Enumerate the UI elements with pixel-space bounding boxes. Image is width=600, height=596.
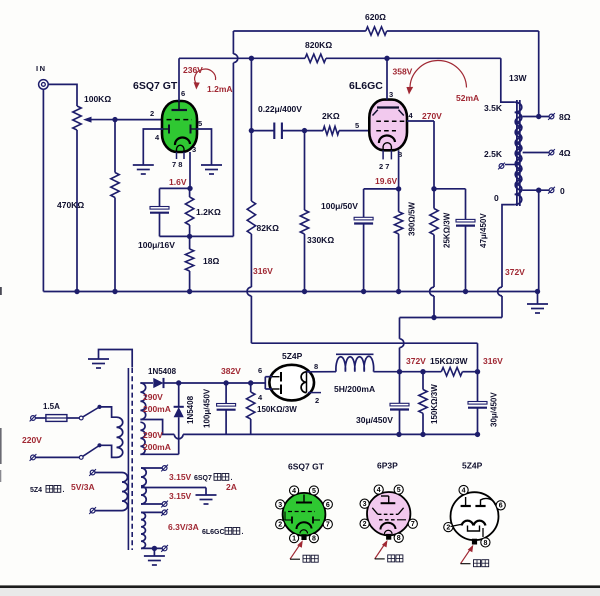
scan artifact bottom line <box>0 585 600 588</box>
screen node <box>431 186 436 191</box>
svg-text:52mA: 52mA <box>456 93 479 103</box>
plate wire row <box>179 57 305 59</box>
PT primary winding <box>117 417 123 457</box>
svg-text:6: 6 <box>181 89 185 98</box>
resistor 470K <box>114 120 116 173</box>
wire pin3 cathode <box>189 152 191 188</box>
svg-text:8: 8 <box>312 536 316 543</box>
wire top 620 line <box>233 30 365 32</box>
svg-text:2.5K: 2.5K <box>484 149 503 159</box>
main ground rail <box>43 291 537 293</box>
6L6 plate <box>377 106 399 108</box>
6SQ7 diode plates <box>168 125 170 134</box>
svg-text:6: 6 <box>258 366 262 375</box>
svg-text:8: 8 <box>483 540 487 547</box>
mains terminal N <box>31 455 36 460</box>
svg-text:4: 4 <box>292 488 296 495</box>
svg-text:0.22μ/400V: 0.22μ/400V <box>258 104 302 114</box>
5Z4P plates <box>272 376 280 378</box>
svg-text:25KΩ/3W: 25KΩ/3W <box>443 212 452 248</box>
OPT core <box>516 100 518 206</box>
svg-text:6SQ7 GT: 6SQ7 GT <box>133 80 178 92</box>
wire jack to pot top <box>48 84 77 106</box>
svg-text:7 8: 7 8 <box>172 160 182 169</box>
svg-text:382V: 382V <box>221 366 241 376</box>
node 316V <box>462 371 477 373</box>
capacitor 0.22u <box>273 123 275 140</box>
PT core ground <box>99 350 133 368</box>
input jack IN <box>39 80 49 90</box>
choke 5H/200mA <box>336 353 374 355</box>
svg-text:6L6GC: 6L6GC <box>202 529 225 536</box>
PT 6SQ7 winding <box>141 468 146 504</box>
capacitor 100u/50V <box>363 189 365 217</box>
diode 1N5408 shunt <box>178 383 180 407</box>
svg-text:IN: IN <box>36 64 47 73</box>
OPT secondary winding <box>515 117 522 191</box>
svg-text:1.2mA: 1.2mA <box>207 84 233 94</box>
svg-text:47μ/450V: 47μ/450V <box>479 213 488 248</box>
6L6 plate lead pin3 <box>386 58 388 99</box>
OPT sec 0 tap <box>523 189 550 191</box>
svg-text:4: 4 <box>462 487 466 494</box>
PT HV winding lower <box>140 422 145 454</box>
resistor 18ohm <box>189 236 191 249</box>
resistor 820K <box>305 54 326 62</box>
wire 382V line <box>179 382 266 384</box>
svg-text:13W: 13W <box>509 73 527 83</box>
diode 1N5408 series <box>153 378 163 388</box>
svg-text:100μ/450V: 100μ/450V <box>203 388 212 428</box>
svg-text:82KΩ: 82KΩ <box>257 223 280 233</box>
svg-text:3: 3 <box>389 90 393 99</box>
svg-text:390Ω/5W: 390Ω/5W <box>408 202 417 236</box>
socket 6P3P <box>367 492 410 535</box>
wire grid to 6SQ7 pin2 <box>115 119 163 121</box>
svg-text:7: 7 <box>411 521 415 528</box>
socket 6SQ7 GT <box>283 493 326 536</box>
svg-text:7: 7 <box>326 522 330 529</box>
OPT sec 8ohm tap <box>523 116 550 118</box>
resistor 82K <box>250 131 252 201</box>
capacitor 30u/450V b <box>477 372 479 402</box>
6L6 winding gnd <box>153 548 155 556</box>
svg-text:820KΩ: 820KΩ <box>305 40 332 50</box>
svg-text:2: 2 <box>446 525 450 532</box>
svg-text:290V: 290V <box>143 430 163 440</box>
svg-text:2: 2 <box>315 396 319 405</box>
coupling wire <box>251 130 274 132</box>
feedback vert top <box>232 31 234 54</box>
tube 6SQ7 GT body <box>162 101 197 152</box>
choke out wire <box>374 371 442 373</box>
svg-text:6SQ7 GT: 6SQ7 GT <box>288 461 325 471</box>
5Z4P pin2 stub <box>308 392 321 394</box>
6SQ7 winding tap gnd <box>141 487 206 489</box>
svg-text:620Ω: 620Ω <box>365 12 386 22</box>
wire 25K down <box>433 235 435 287</box>
5Z4P anode bracket <box>264 377 266 389</box>
svg-text:372V: 372V <box>505 267 525 277</box>
wire 2K to pin5 <box>339 130 369 132</box>
svg-text:4: 4 <box>377 487 381 494</box>
PT HV winding upper <box>140 383 145 420</box>
svg-text:5Z4: 5Z4 <box>30 487 42 494</box>
svg-text:8: 8 <box>397 535 401 542</box>
svg-text:3: 3 <box>192 145 196 154</box>
svg-text:316V: 316V <box>253 266 273 276</box>
5Z4P filament <box>301 372 306 393</box>
svg-text:270V: 270V <box>422 111 442 121</box>
socket 6P3P internals <box>388 496 390 503</box>
6SQ7 plate lead pin6 <box>178 58 180 101</box>
6SQ7 current arrow <box>195 69 216 84</box>
svg-text:3: 3 <box>363 501 367 508</box>
OPT primary winding <box>515 102 522 205</box>
node 330K <box>302 128 307 133</box>
svg-text:372V: 372V <box>406 356 426 366</box>
svg-text:30μ/450V: 30μ/450V <box>490 392 499 427</box>
switch lower <box>79 456 83 460</box>
5Z4P pin8 wire <box>307 371 337 373</box>
svg-text:3: 3 <box>278 502 282 509</box>
6L6 cathode arc <box>379 135 395 143</box>
ground pin4 6SQ7 <box>143 129 163 165</box>
socket 5Z4P internals <box>465 497 467 506</box>
svg-text:.: . <box>231 475 233 482</box>
svg-text:6L6GC: 6L6GC <box>349 80 383 92</box>
svg-text:316V: 316V <box>483 356 503 366</box>
resistor 1.2K <box>189 188 191 197</box>
svg-text:1: 1 <box>292 536 296 543</box>
svg-text:3.5K: 3.5K <box>484 103 503 113</box>
switch upper <box>67 417 79 419</box>
feedback wire 620 <box>232 63 234 237</box>
OPT UL tap <box>505 164 515 166</box>
wire HV bottom <box>140 453 178 455</box>
svg-text:220V: 220V <box>22 435 42 445</box>
svg-text:6.3V/3A: 6.3V/3A <box>168 522 199 532</box>
6L6 pin4 wire <box>407 120 434 122</box>
svg-text:1.5A: 1.5A <box>43 402 60 411</box>
6SQ7 grid dashes <box>167 119 193 121</box>
capacitor 100u/450V <box>225 383 227 404</box>
capacitor 30u/450V a <box>399 372 401 404</box>
capacitor 100u/16V <box>159 188 161 206</box>
PT 6L6 winding <box>141 512 145 548</box>
6SQ7 plate <box>172 109 188 111</box>
wire plate node down <box>250 58 252 130</box>
svg-text:5H/200mA: 5H/200mA <box>334 384 375 394</box>
socket 5Z4P <box>451 492 499 540</box>
6SQ7 heater <box>177 145 185 152</box>
svg-text:0: 0 <box>560 186 565 196</box>
resistor 150K/3W b <box>422 372 424 390</box>
svg-text:2: 2 <box>363 521 367 528</box>
svg-text:15KΩ/3W: 15KΩ/3W <box>430 356 468 366</box>
svg-text:2 7: 2 7 <box>379 162 389 171</box>
svg-text:6: 6 <box>499 503 503 510</box>
svg-text:1.6V: 1.6V <box>169 177 187 187</box>
svg-text:18Ω: 18Ω <box>203 256 219 266</box>
svg-text:150KΩ/3W: 150KΩ/3W <box>257 405 297 414</box>
svg-text:.: . <box>63 487 65 494</box>
tube 6L6GC body <box>369 100 407 151</box>
resistor 25K 3W <box>433 189 435 209</box>
cathode net bottom <box>160 235 234 237</box>
svg-text:8: 8 <box>314 362 318 371</box>
pot wiper arrow <box>88 119 115 121</box>
svg-text:2KΩ: 2KΩ <box>322 111 340 121</box>
wire 372V vert <box>400 317 503 319</box>
wire jack shield down <box>42 89 44 291</box>
svg-text:5Z4P: 5Z4P <box>282 351 303 361</box>
svg-text:1N5408: 1N5408 <box>148 367 177 376</box>
svg-text:330KΩ: 330KΩ <box>307 235 334 245</box>
mains terminal L <box>31 416 36 421</box>
resistor 15K/3W <box>441 368 462 376</box>
svg-text:30μ/450V: 30μ/450V <box>356 415 393 425</box>
tube 5Z4P body <box>269 365 314 401</box>
svg-text:358V: 358V <box>393 67 413 77</box>
svg-text:200mA: 200mA <box>143 442 171 452</box>
power transformer core <box>127 368 129 550</box>
svg-text:150KΩ/3W: 150KΩ/3W <box>430 384 439 424</box>
svg-text:3.15V: 3.15V <box>169 472 192 482</box>
svg-text:1N5408: 1N5408 <box>186 395 195 424</box>
svg-text:1.2KΩ: 1.2KΩ <box>196 207 221 217</box>
svg-text:5V/3A: 5V/3A <box>71 482 95 492</box>
6L6 screen dashes <box>376 120 407 122</box>
6L6 grid dashes <box>376 130 396 132</box>
fuse 1.5A <box>46 415 67 422</box>
svg-text:5: 5 <box>312 488 316 495</box>
node rectifier out <box>176 380 181 385</box>
label 5Z4 filament <box>46 486 53 493</box>
6L6 heater <box>383 143 391 150</box>
resistor 620 <box>366 27 387 35</box>
main ground symbol <box>537 292 539 305</box>
node wiper junction <box>112 117 117 122</box>
svg-text:6P3P: 6P3P <box>377 461 398 471</box>
svg-text:200mA: 200mA <box>143 404 171 414</box>
PT HV center tap <box>140 420 174 435</box>
svg-text:6SQ7: 6SQ7 <box>194 475 212 482</box>
OPT primary lead bottom <box>502 205 515 288</box>
PT 5V winding <box>90 470 95 475</box>
svg-text:100KΩ: 100KΩ <box>84 94 111 104</box>
svg-text:6: 6 <box>326 502 330 509</box>
svg-text:0: 0 <box>494 193 499 203</box>
svg-text:5Z4P: 5Z4P <box>462 461 483 471</box>
capacitor 47u/450V <box>465 189 467 220</box>
6SQ7 cathode arc <box>175 137 190 145</box>
cathode net top <box>160 187 191 189</box>
svg-text:470KΩ: 470KΩ <box>57 200 84 210</box>
scan artifact left edge <box>0 287 2 295</box>
resistor 390 5W <box>398 189 400 212</box>
svg-text:19.6V: 19.6V <box>375 176 398 186</box>
ground pin5 6SQ7 <box>197 129 212 165</box>
OPT sec 4ohm tap <box>523 152 550 154</box>
svg-text:100μ/16V: 100μ/16V <box>138 240 175 250</box>
resistor 330K <box>304 131 306 210</box>
svg-text:5: 5 <box>355 121 359 130</box>
socket 6SQ7 internals <box>303 495 305 503</box>
6L6 current arrow <box>410 61 467 89</box>
svg-text:5: 5 <box>397 487 401 494</box>
resistor 150K/3W a <box>250 383 252 392</box>
wire pot bottom <box>76 130 78 292</box>
potentiometer 100K <box>73 106 81 130</box>
svg-text:.: . <box>242 529 244 536</box>
svg-text:4Ω: 4Ω <box>559 148 571 158</box>
wire 82K to 316V <box>250 234 252 287</box>
svg-text:100μ/50V: 100μ/50V <box>321 201 358 211</box>
6L6 cathode wire <box>398 150 400 189</box>
svg-text:290V: 290V <box>143 392 163 402</box>
wire 316V run <box>251 342 477 344</box>
svg-text:5: 5 <box>198 119 202 128</box>
svg-text:2A: 2A <box>226 482 237 492</box>
svg-text:2: 2 <box>150 109 154 118</box>
wire 0 tap to gnd <box>538 190 540 291</box>
svg-text:3.15V: 3.15V <box>169 491 192 501</box>
resistor 2K <box>323 126 339 134</box>
svg-text:2: 2 <box>278 522 282 529</box>
feedback takeoff <box>538 31 540 117</box>
OPT primary lead top <box>501 58 515 102</box>
svg-text:8Ω: 8Ω <box>559 112 571 122</box>
